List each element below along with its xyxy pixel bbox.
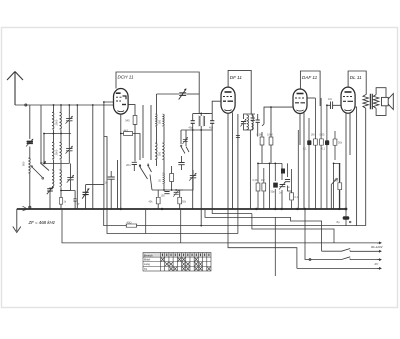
wire coil bottoms to bus: [50, 187, 75, 209]
inductor osc L4a: [155, 114, 157, 126]
terminal row4: [377, 267, 381, 269]
wire IFT1 frame rails: [181, 113, 209, 146]
wire antenna lead-in: [15, 104, 114, 106]
tube U4 internals: [343, 92, 353, 111]
capacitor C6 osc 50p: [178, 163, 184, 165]
wire coil interlink mid: [44, 130, 71, 143]
switch wave-trap S1: [32, 167, 43, 178]
switch contact dots: [31, 145, 182, 167]
svg-text:0,1: 0,1: [322, 148, 326, 151]
svg-text:ZF = 468 kHz: ZF = 468 kHz: [28, 220, 56, 225]
op-amp: vacuum tube U1 DCH11 envelope: [114, 89, 129, 115]
resistor R6: [269, 137, 273, 145]
capacitor C15 coupling to DL: [331, 102, 333, 110]
node bus junctions: [120, 208, 348, 211]
table X marks: [161, 258, 211, 271]
switch supply S4: [342, 249, 351, 252]
svg-text:4k5: 4k5: [124, 128, 129, 132]
ground: [13, 209, 21, 233]
wire routing C: [205, 209, 322, 251]
svg-text:1M: 1M: [261, 179, 264, 182]
wire osc bottom link: [150, 175, 183, 191]
inductor IFT1 winding a: [198, 116, 200, 126]
inductor antenna L3a: [52, 170, 54, 187]
svg-text:40Ω: 40Ω: [127, 220, 132, 224]
svg-text:345: 345: [125, 119, 130, 123]
variable capacitor CV-osc top: [179, 89, 187, 100]
terminal row3: [377, 259, 381, 261]
wire phono drop: [274, 217, 276, 276]
wire row3 feed: [305, 209, 310, 260]
resistor R2 grid: [124, 132, 133, 136]
svg-text:2000: 2000: [55, 149, 59, 155]
inductor IFT2 winding b: [251, 115, 253, 130]
wire IFT2 links: [244, 114, 253, 209]
wire osc frame left: [143, 105, 151, 160]
svg-text:0,1: 0,1: [303, 148, 307, 151]
resistor R12: [333, 139, 337, 145]
wire R13 leads: [339, 163, 341, 209]
wire U1 anode tap right: [128, 105, 135, 115]
inductor antenna L2b: [60, 142, 62, 159]
svg-text:550: 550: [158, 151, 161, 156]
wire U1 cathode down: [120, 114, 122, 209]
svg-text:Lang: Lang: [144, 262, 150, 266]
op-amp: vacuum tube U4 DL11 envelope: [341, 87, 355, 113]
wire osc top to VC: [157, 94, 180, 114]
capacitor IFT1 right: [210, 121, 214, 124]
resistor R5: [260, 137, 264, 145]
wire battery row 2: [322, 250, 377, 252]
wire filament line B: [107, 209, 238, 234]
wire filament line A: [104, 209, 366, 226]
wire speaker loop: [376, 88, 386, 116]
wire HT feed below bus: [62, 209, 334, 243]
svg-text:550: 550: [158, 119, 161, 124]
capacitor IFT1 left: [191, 121, 195, 124]
op-amp: vacuum tube U3 DAF11 envelope: [293, 89, 307, 114]
resistor R4: [156, 197, 160, 204]
trimmer T3: [67, 175, 74, 183]
switching table: [143, 253, 211, 272]
wire coil interlink 2: [44, 134, 61, 170]
wire routing E: [212, 209, 334, 241]
wire CV1 leads: [86, 185, 104, 209]
wire coil top stubs: [54, 105, 62, 112]
resistor R1 screen: [133, 116, 137, 125]
transformer core: [370, 94, 372, 109]
terminal row2: [377, 250, 381, 252]
svg-text:Mittel: Mittel: [144, 258, 151, 262]
svg-text:8μ: 8μ: [337, 220, 340, 224]
wire tall rail x92.8: [92, 105, 94, 209]
speaker driver: [382, 97, 389, 105]
inductor osc feedback L6: [163, 173, 165, 184]
wire U3 diode left tap: [264, 107, 293, 119]
wire VC to frame: [187, 93, 200, 95]
node trap-bus connector: [29, 206, 31, 208]
table header ticks: [163, 254, 209, 257]
wire U2 aux down: [232, 113, 234, 210]
wire U3 cathode down: [300, 113, 304, 209]
wire IFT1 right cap leads: [204, 113, 212, 130]
capacitor C16 electrolytic 8uF: [343, 216, 350, 219]
inductor antenna L2a: [52, 142, 54, 159]
inductor IFT2 winding a: [247, 115, 249, 130]
node row3 start: [309, 259, 311, 261]
trimmer IFT2 left: [240, 119, 246, 127]
capacitor C14 blob: [325, 140, 329, 145]
node antenna connector: [25, 104, 27, 106]
inductor osc L4b: [162, 114, 164, 126]
resistor R9: [290, 193, 294, 200]
tube U2 internals: [223, 92, 233, 111]
svg-text:2000: 2000: [55, 119, 59, 125]
trimmer CV2 gang osc: [189, 173, 196, 181]
transformer output primary: [363, 95, 369, 109]
svg-text:0,2M: 0,2M: [253, 179, 259, 182]
wire transformer top feed: [365, 95, 368, 226]
wire R2 right to osc: [133, 134, 140, 161]
trimmer T2: [66, 146, 73, 154]
wire trimmer T1 leads: [68, 105, 70, 134]
capacitor IFT2 right: [251, 118, 255, 120]
capacitor C2 coupling: [132, 162, 137, 164]
svg-text:0,3M: 0,3M: [257, 134, 263, 137]
svg-text:20n: 20n: [126, 163, 131, 167]
wire tall rail x77: [76, 105, 78, 209]
resistor R11 under DAF: [320, 139, 324, 145]
switch tone S3: [331, 179, 336, 209]
switch band contact a: [41, 162, 49, 171]
resistor R7: [256, 183, 260, 191]
wire C15 leads: [327, 104, 341, 106]
wire R5 R6 leads: [262, 107, 271, 163]
svg-text:100: 100: [161, 195, 166, 198]
svg-text:TA: TA: [144, 267, 147, 271]
inductor antenna L1a: [52, 112, 54, 129]
node C16 aux connector: [349, 221, 351, 223]
node osc junctions: [163, 189, 177, 191]
svg-text:Bereich: Bereich: [144, 253, 153, 257]
wire filament branch x107: [104, 137, 107, 210]
wire DF anode frame: [228, 70, 251, 114]
coil trap L: [28, 158, 30, 173]
wire DL anode frame: [348, 71, 366, 95]
wire C5 leads: [111, 160, 117, 209]
svg-text:0,05: 0,05: [320, 134, 325, 137]
resistor R3 osc: [170, 174, 174, 182]
wire IFT2 frame rails: [238, 114, 255, 209]
svg-text:DL 11: DL 11: [350, 75, 362, 80]
table row labels: [144, 258, 151, 271]
svg-text:DF 11: DF 11: [230, 75, 243, 80]
wire C2 down: [133, 165, 135, 172]
svg-text:50p: 50p: [271, 191, 276, 194]
node routing junction: [200, 225, 202, 227]
detector cluster wires: [258, 130, 298, 209]
tube U1 internals: [116, 93, 126, 111]
antenna: [7, 72, 23, 106]
tuning capacitor gang CV1: [82, 188, 89, 198]
svg-text:10n: 10n: [328, 98, 333, 101]
switch osc contacts: [181, 147, 189, 154]
wire U2 grid left tap: [212, 101, 221, 113]
wire IFT1 drops: [193, 126, 213, 226]
capacitor C12 blob top: [281, 169, 285, 174]
capacitor C5: [108, 177, 115, 179]
resistor R14 filament dropper: [126, 224, 136, 227]
svg-text:800: 800: [22, 161, 26, 166]
wire R4b leads: [179, 190, 181, 209]
inductor antenna L1b: [60, 112, 62, 129]
svg-text:0,9M: 0,9M: [267, 134, 273, 137]
wire DCH anode frame: [116, 72, 199, 114]
svg-text:2M: 2M: [311, 134, 314, 137]
wire R3 leads: [164, 166, 172, 190]
svg-text:90–120V: 90–120V: [371, 245, 384, 249]
svg-text:DAF 11: DAF 11: [302, 75, 318, 80]
switch band osc Sa: [140, 164, 148, 179]
wire R4 leads: [157, 190, 159, 209]
inductor antenna L3b: [60, 170, 62, 187]
capacitor C7 small on rail: [236, 135, 240, 137]
capacitor C9 electrolytic blob: [273, 183, 278, 188]
wire DAF anode frame: [300, 71, 320, 106]
resistor R8: [262, 183, 266, 191]
inductor osc L5a: [155, 143, 157, 159]
wire grid feed x103.9: [104, 102, 114, 209]
capacitor C8 det: [256, 120, 260, 122]
wire battery row 1: [334, 241, 377, 243]
capacitor C13 blob: [307, 140, 311, 145]
wire battery row 4: [297, 267, 377, 269]
wire routing F: [145, 209, 147, 234]
capacitor Cb small: [74, 199, 77, 201]
trimmer T4 padder: [173, 190, 179, 197]
capacitor C4 padder: [164, 192, 169, 194]
inductor IFT1 winding b: [203, 116, 205, 126]
wire U2 cathode down: [227, 113, 229, 209]
wire trimmer T3 leads: [61, 164, 71, 191]
wire osc coils links: [157, 126, 165, 173]
resistor Ra bottom: [59, 198, 62, 205]
capacitor Ca trimmer: [47, 186, 53, 194]
wire antenna trap branch: [29, 105, 31, 209]
wire left rail of band switch: [40, 105, 42, 162]
wire U4 cathode down: [346, 113, 350, 209]
tube U3 internals: [295, 94, 305, 111]
trimmer padder: [182, 137, 187, 144]
ground bus chassis: [17, 208, 346, 210]
resistor R4b: [178, 197, 182, 204]
trimmer C10: [279, 182, 285, 190]
speaker cone: [388, 94, 393, 110]
op-amp: vacuum tube U2 DF11 envelope: [221, 87, 235, 113]
wire routing G: [228, 209, 297, 268]
wire CV2 leads: [175, 170, 193, 190]
inductor osc L5b: [162, 143, 164, 159]
wire U3 right tap: [307, 97, 315, 99]
wires under DAF: [309, 98, 340, 209]
node junction dots misc: [43, 101, 334, 191]
capacitor C11: [285, 180, 290, 182]
trimmer T1: [66, 116, 73, 124]
wire battery row 3: [310, 259, 377, 261]
svg-text:40p: 40p: [209, 127, 214, 130]
wire C6 leads: [181, 156, 183, 170]
resistor R10 under DAF: [314, 139, 318, 145]
resistor R13: [338, 183, 342, 190]
svg-text:DCH 11: DCH 11: [118, 75, 134, 80]
wire R1 down: [121, 124, 135, 161]
wire routing H: [180, 209, 182, 243]
wire U3 left feed small: [262, 119, 264, 126]
terminal row1: [377, 242, 381, 244]
switch band osc Sb: [148, 164, 152, 173]
wire C16 leads: [345, 209, 347, 226]
transformer output secondary: [373, 95, 379, 109]
bus direction arrow: [23, 206, 28, 211]
wire U4 right tap: [355, 107, 357, 226]
switch supply S5: [342, 257, 351, 260]
wire IFT1 left cap leads: [181, 113, 212, 130]
wire trimmer T2 leads: [44, 134, 69, 164]
capacitor trap (variable): [26, 139, 33, 147]
wire C8 leads: [257, 114, 259, 137]
svg-text:0,1: 0,1: [295, 196, 299, 199]
